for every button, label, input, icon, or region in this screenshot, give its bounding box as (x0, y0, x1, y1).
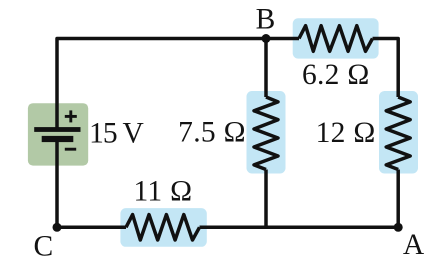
svg-text:B: B (256, 4, 276, 36)
svg-text:C: C (34, 231, 54, 263)
svg-text:12 Ω: 12 Ω (316, 117, 376, 149)
svg-text:11 Ω: 11 Ω (133, 176, 192, 208)
svg-text:6.2 Ω: 6.2 Ω (302, 59, 370, 91)
svg-text:15 V: 15 V (89, 118, 143, 150)
svg-text:A: A (403, 229, 425, 261)
svg-text:7.5 Ω: 7.5 Ω (178, 116, 246, 148)
